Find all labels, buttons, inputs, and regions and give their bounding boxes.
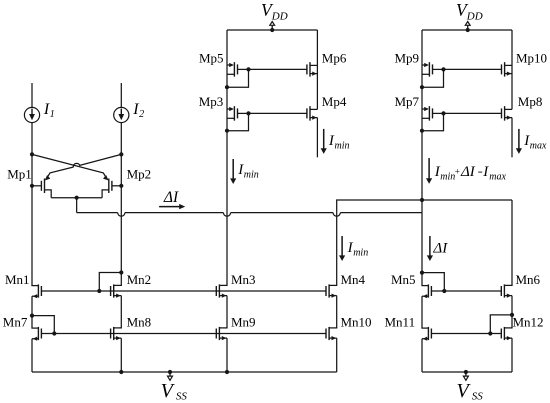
node Mp1 gate <box>30 184 34 188</box>
svg-text:Mn5: Mn5 <box>391 272 416 287</box>
wire Mp7 gate to Mp8 gate <box>444 112 502 114</box>
wire colD Mp6 to Mp4 <box>316 65 318 109</box>
transistor Mp6 <box>310 64 317 66</box>
svg-text:Mp9: Mp9 <box>395 50 420 65</box>
svg-text:2: 2 <box>139 109 144 120</box>
wire colC Mp5 to Mp3 <box>226 65 228 109</box>
svg-text:Mp10: Mp10 <box>516 50 547 65</box>
wire colB Mp2-gate down to Mn2 (bus hops over) <box>120 186 122 273</box>
transistor Mn1 <box>31 285 38 287</box>
wire colE Mn4 source to Mn10 <box>336 296 338 328</box>
node Mn7 tie on gate bus <box>52 331 56 335</box>
wire colF upper link to bus <box>421 200 423 213</box>
node Mp9 gate <box>441 67 445 71</box>
node Mp9 drain <box>420 85 424 89</box>
wire delta-I bus segment 3 <box>231 212 334 214</box>
svg-text:Mp8: Mp8 <box>518 94 543 109</box>
node Mn2 tie on gate bus <box>97 289 101 293</box>
wire Mp3 gate to Mp4 gate <box>249 112 307 114</box>
wire colA node to Mp1 gate <box>31 154 33 185</box>
svg-text:DD: DD <box>271 11 288 23</box>
svg-text:Mp4: Mp4 <box>322 94 347 109</box>
wire Mn12 diode tie <box>490 315 512 334</box>
wire Mp3 diode tie <box>227 113 249 130</box>
arrow Imin on colE <box>341 236 343 257</box>
transistor Mp9 <box>422 64 428 66</box>
svg-text:DD: DD <box>466 11 483 23</box>
svg-text:+: + <box>454 167 460 177</box>
hop over colB <box>118 213 125 217</box>
wire Mp9 gate to Mp10 gate <box>444 68 502 70</box>
wire colC Mp3 down to Mn3 <box>226 109 228 285</box>
wire colD rail to Mp6 <box>316 30 318 65</box>
svg-text:Mp3: Mp3 <box>199 94 224 109</box>
wire cross-couple to Mp1 source (hop) <box>73 154 121 167</box>
wire VSS rail left <box>32 371 337 373</box>
svg-text:Mp1: Mp1 <box>7 166 32 181</box>
wire Mn2 diode tie <box>99 273 121 292</box>
arrow Imin+dI on colF <box>428 158 430 179</box>
wire colE bus to Mn4 <box>336 213 338 286</box>
svg-text:min: min <box>335 140 350 151</box>
svg-text:I: I <box>482 164 489 180</box>
svg-text:min: min <box>353 247 368 258</box>
wire I1 to node <box>31 123 33 155</box>
transistor Mn12 <box>504 327 512 329</box>
wire I2 branch top <box>120 83 122 107</box>
svg-text:Mn1: Mn1 <box>5 272 30 287</box>
svg-text:SS: SS <box>472 390 484 402</box>
transistor Mn11 <box>421 327 428 329</box>
wire colB Mn2 source to Mn8 <box>120 296 122 328</box>
wire colF Mn5 source to Mn11 <box>421 296 423 328</box>
wire I2 to node <box>120 123 122 155</box>
wire colF Mp9 to Mp7 <box>421 65 423 109</box>
wire colF rail to Mp9 <box>421 30 423 65</box>
node B (cross-coupling right) <box>119 152 123 156</box>
wire colG Mn12 source to rail <box>511 338 513 372</box>
wire colB Mn8 source to rail <box>120 338 122 372</box>
wire gate bus Mn11-Mn12 <box>431 333 501 335</box>
wire colG upper link to Mn6 <box>511 200 513 285</box>
arrow Imin at Mp4 output <box>323 129 325 150</box>
svg-text:Mp5: Mp5 <box>199 50 224 65</box>
wire colF bus down to Mn5 <box>421 213 423 286</box>
transistor Mn8 <box>114 327 122 329</box>
wire Mp3 gate lead <box>238 112 249 114</box>
wire Mn7 diode tie <box>32 316 54 334</box>
node Mn12 tie on gate bus <box>488 331 492 335</box>
node Mp7 drain <box>420 129 424 133</box>
transistor Mp5 <box>227 64 233 66</box>
wire colE Mn10 source to rail <box>336 338 338 372</box>
svg-text:Mn10: Mn10 <box>341 314 372 329</box>
node Mn7 tie top <box>30 314 34 318</box>
transistor Mn10 <box>329 327 337 329</box>
power VDD symbol right <box>466 28 470 32</box>
wire common drain of Mp1/Mp2 <box>51 197 102 199</box>
wire VSS rail right <box>422 371 512 373</box>
wire delta-I bus segment 4 <box>340 212 422 214</box>
node Mn5 drain tie <box>420 271 424 275</box>
svg-text:V: V <box>161 380 176 402</box>
transistor Mn9 <box>219 327 227 329</box>
node Mn9 on rail <box>225 370 229 374</box>
wire gate bus Mn1-Mn4 <box>41 290 326 292</box>
wire drop to delta-I bus <box>76 198 78 213</box>
arrow delta-I direction <box>159 206 180 208</box>
node Mn8 on rail <box>119 370 123 374</box>
node Mp2 gate <box>119 184 123 188</box>
node Mp5 drain <box>225 85 229 89</box>
wire Mp7 gate lead <box>433 112 444 114</box>
wire Mp4 drain stub <box>316 118 318 158</box>
transistor Mp8 <box>505 108 512 110</box>
transistor Mp7 <box>422 108 428 110</box>
wire Mp5 gate lead <box>238 68 249 70</box>
svg-text:Mn3: Mn3 <box>231 272 256 287</box>
hop over colC <box>223 213 230 217</box>
svg-text:SS: SS <box>176 390 188 402</box>
svg-text:Mn2: Mn2 <box>127 272 152 287</box>
transistor Mn7 <box>31 327 38 329</box>
VDD rail right group <box>422 29 512 31</box>
wire colG Mp10 to Mp8 <box>511 65 513 109</box>
wire colA Mp1-gate down to Mn1 <box>31 186 33 286</box>
svg-text:min: min <box>440 171 455 182</box>
wire colC Mn3 source to Mn9 <box>226 296 228 328</box>
svg-text:ΔI: ΔI <box>432 240 448 256</box>
node Mn12 drain tie <box>510 313 514 317</box>
transistor Mn3 <box>219 284 227 286</box>
node Mp5 gate <box>246 67 250 71</box>
node Mn2 drain tie <box>119 270 123 274</box>
wire gate bus Mn7-Mn10 <box>41 333 326 335</box>
node upper link / Mp7 drain <box>420 198 424 202</box>
transistor Mp1 <box>32 185 41 187</box>
arrow Imax at Mp8 output <box>518 129 520 150</box>
wire colG Mn6 source to Mn12 <box>511 296 513 315</box>
transistor Mn5 <box>421 285 428 287</box>
svg-text:Mp6: Mp6 <box>322 50 347 65</box>
svg-text:ΔI: ΔI <box>163 189 179 206</box>
current source I2 <box>114 107 129 122</box>
wire colG tie to Mn12 drain <box>511 315 513 328</box>
svg-text:Mn8: Mn8 <box>127 314 152 329</box>
wire delta-I bus segment 1 <box>77 212 118 214</box>
node common drain <box>75 196 79 200</box>
wire colG rail to Mp10 <box>511 30 513 65</box>
svg-text:=: = <box>477 167 483 177</box>
wire colA Mn1 source to Mn7 <box>31 296 33 328</box>
svg-text:max: max <box>489 171 506 182</box>
wire delta-I bus segment 2 <box>125 212 223 214</box>
transistor Mp3 <box>227 108 233 110</box>
node Mp3 drain <box>225 129 229 133</box>
wire Mp5 gate to Mp6 gate <box>249 68 307 70</box>
wire Mp7 diode tie <box>422 113 444 130</box>
svg-text:Mn11: Mn11 <box>385 314 416 329</box>
wire colF Mn11 source to rail <box>421 339 423 372</box>
transistor Mn2 <box>114 284 122 286</box>
wire colB tie to Mn2 drain <box>120 273 122 286</box>
arrow delta-I below bus <box>429 236 431 257</box>
ground VSS symbol right <box>464 370 468 374</box>
wire colA Mn7 source to rail <box>31 339 33 372</box>
current source I1 <box>24 107 39 122</box>
wire colC Mn9 source to rail <box>226 338 228 372</box>
wire upper link line <box>337 200 512 213</box>
ground VSS symbol left <box>168 370 172 374</box>
svg-text:1: 1 <box>50 109 55 120</box>
svg-text:Mn6: Mn6 <box>516 272 541 287</box>
transistor Mp2 <box>112 185 121 187</box>
wire colC rail to Mp5 <box>226 30 228 65</box>
transistor Mp4 <box>310 108 317 110</box>
wire colB node to Mp2 gate <box>120 154 122 185</box>
wire I1 branch top <box>31 83 33 107</box>
transistor Mp10 <box>505 64 512 66</box>
transistor Mn6 <box>504 284 512 286</box>
svg-text:ΔI: ΔI <box>460 164 476 180</box>
power VDD symbol left <box>270 28 274 32</box>
wire cross-couple to Mp2 source <box>32 154 107 179</box>
svg-text:Mp2: Mp2 <box>127 166 152 181</box>
svg-text:min: min <box>244 169 259 180</box>
VDD rail left group <box>227 29 317 31</box>
wire colF Mp7 down to upper link <box>421 109 423 200</box>
node Mp7 gate <box>441 111 445 115</box>
wire Mp8 drain stub <box>511 118 513 158</box>
wire Mp5 diode tie <box>227 69 249 87</box>
svg-text:Mp7: Mp7 <box>395 94 420 109</box>
arrow Imin on colC <box>232 159 234 180</box>
wire Mn5 diode tie <box>422 273 444 291</box>
wire Mp9 diode tie <box>422 69 444 87</box>
svg-text:Mn12: Mn12 <box>513 314 544 329</box>
svg-text:Mn4: Mn4 <box>341 272 366 287</box>
svg-text:V: V <box>457 380 472 402</box>
node A (cross-coupling left) <box>30 152 34 156</box>
transistor Mn4 <box>329 284 337 286</box>
svg-text:max: max <box>530 140 547 151</box>
svg-text:Mn9: Mn9 <box>231 314 256 329</box>
wire gate bus Mn5-Mn6 <box>431 290 501 292</box>
hop over colE <box>333 213 340 217</box>
svg-text:Mn7: Mn7 <box>3 314 28 329</box>
node Mn5 tie on gate bus <box>442 289 446 293</box>
wire Mp9 gate lead <box>433 68 444 70</box>
node Mp3 gate <box>246 111 250 115</box>
